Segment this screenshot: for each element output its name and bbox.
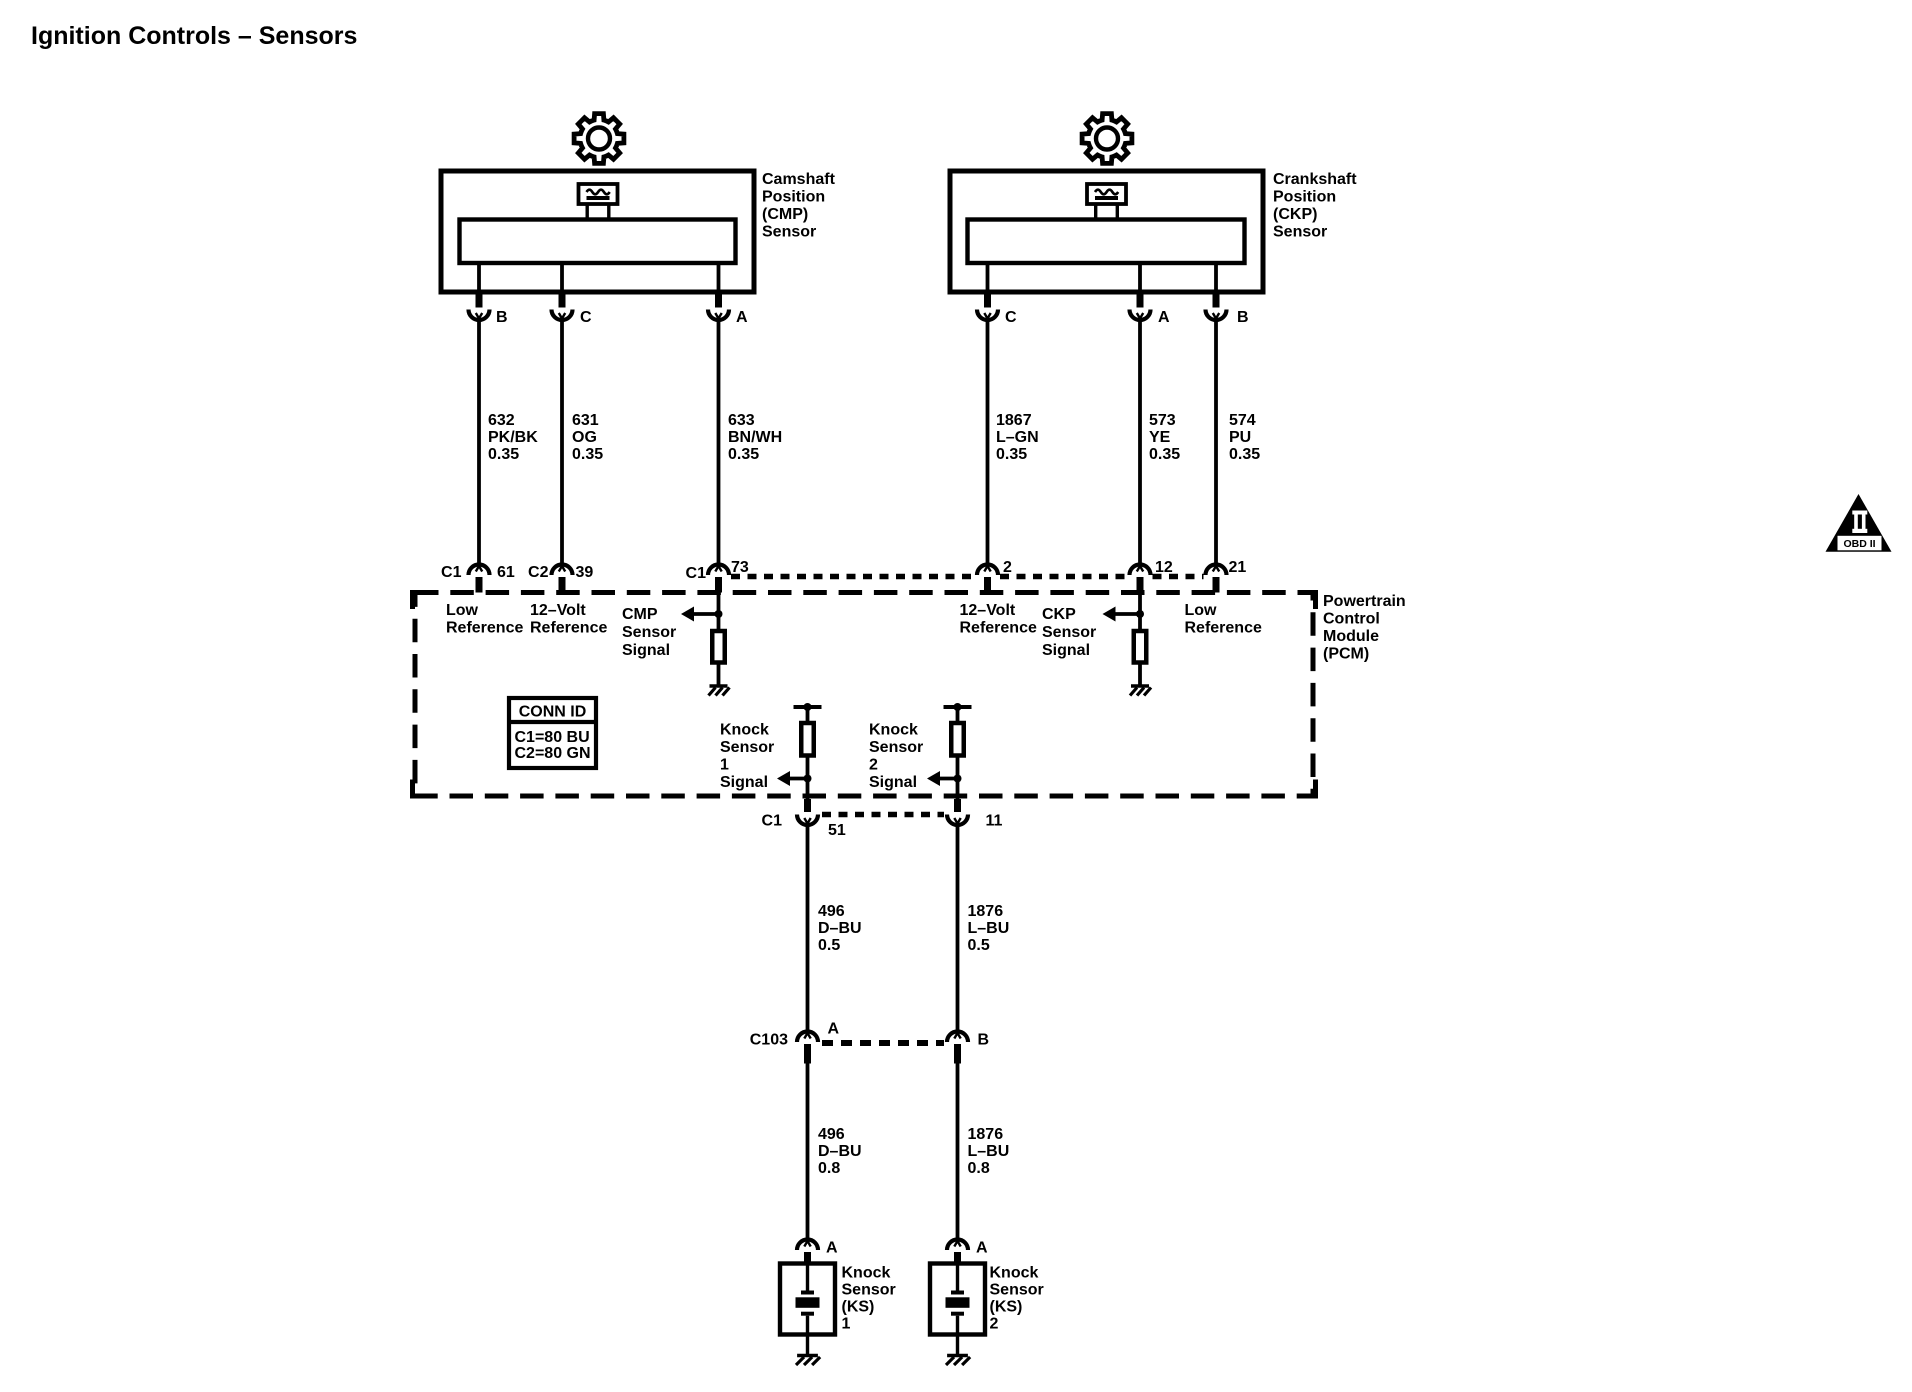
CKP pin A stub xyxy=(1137,294,1144,308)
PCM connector 12 xyxy=(1130,565,1151,593)
ground (KS1) xyxy=(796,1356,820,1366)
CMP pin A lead xyxy=(717,263,721,292)
12-Volt Reference label (right) xyxy=(960,602,1037,637)
CMP pin C lead xyxy=(560,263,564,292)
svg-text:0.35: 0.35 xyxy=(728,446,759,463)
svg-text:CMP: CMP xyxy=(622,606,658,623)
CMP sensor element symbol xyxy=(579,184,618,220)
CKP pin C label xyxy=(1005,309,1017,326)
Low Reference label (left) xyxy=(446,602,523,637)
svg-text:0.35: 0.35 xyxy=(996,446,1027,463)
wire 573 label xyxy=(1149,412,1180,463)
svg-text:(CMP): (CMP) xyxy=(762,206,808,223)
knock sensor KS2 box xyxy=(930,1264,985,1335)
svg-text:A: A xyxy=(826,1240,838,1257)
wire 574 xyxy=(1214,320,1218,565)
svg-text:Knock: Knock xyxy=(869,722,918,739)
KS1 internal wire upper xyxy=(806,707,810,723)
wire 1867 xyxy=(986,320,990,565)
svg-text:A: A xyxy=(976,1240,988,1257)
wire 631 label xyxy=(572,412,603,463)
CKP pin A lead xyxy=(1138,263,1142,292)
Knock Sensor 2 Signal label xyxy=(869,722,923,792)
wire 1876 upper label xyxy=(968,903,1010,954)
svg-text:CONN ID: CONN ID xyxy=(519,704,587,721)
svg-text:Reference: Reference xyxy=(530,620,607,637)
CMP pin C label xyxy=(580,309,592,326)
wire 574 label xyxy=(1229,412,1260,463)
KS2 signal junction dot xyxy=(954,775,962,783)
svg-text:Powertrain: Powertrain xyxy=(1323,593,1406,610)
svg-text:(KS): (KS) xyxy=(990,1299,1023,1316)
resistor knock 2 bias xyxy=(951,723,964,756)
svg-text:PK/BK: PK/BK xyxy=(488,429,538,446)
CKP pin C connector xyxy=(977,310,998,321)
CKP sensor element symbol xyxy=(1087,184,1126,220)
PCM connector C2-39 xyxy=(552,565,573,593)
PCM connector 21 xyxy=(1206,565,1227,593)
svg-text:1876: 1876 xyxy=(968,1126,1004,1143)
svg-text:1: 1 xyxy=(842,1316,851,1333)
resistor knock 1 bias xyxy=(801,723,814,756)
CMP pin B connector xyxy=(469,310,490,321)
svg-text:12–Volt: 12–Volt xyxy=(530,602,586,619)
PCM dashed border xyxy=(413,593,1316,797)
svg-text:0.35: 0.35 xyxy=(1229,446,1260,463)
svg-text:(CKP): (CKP) xyxy=(1273,206,1317,223)
CKP signal junction dot xyxy=(1136,610,1144,618)
svg-text:496: 496 xyxy=(818,903,845,920)
wire 1867 label xyxy=(996,412,1039,463)
C103 connector A xyxy=(797,1032,818,1064)
svg-text:Position: Position xyxy=(1273,189,1336,206)
svg-text:A: A xyxy=(1158,309,1170,326)
svg-text:C1: C1 xyxy=(762,813,783,830)
svg-text:A: A xyxy=(828,1021,840,1038)
svg-text:C1: C1 xyxy=(686,565,707,582)
KS1 internal wire lower xyxy=(806,756,810,803)
wire 632 label xyxy=(488,412,538,463)
svg-text:B: B xyxy=(1237,309,1249,326)
svg-text:496: 496 xyxy=(818,1126,845,1143)
ground (CKP resistor) xyxy=(1130,686,1151,696)
CMP gear icon xyxy=(574,114,624,164)
svg-text:0.35: 0.35 xyxy=(1149,446,1180,463)
svg-text:C: C xyxy=(580,309,592,326)
CMP sensor outer box xyxy=(441,171,754,292)
OBD II symbol xyxy=(1826,494,1892,552)
resistor CKP pullup xyxy=(1134,631,1147,663)
svg-text:12: 12 xyxy=(1155,559,1173,576)
PCM connector 2 label xyxy=(1003,559,1012,576)
svg-text:Knock: Knock xyxy=(990,1265,1039,1282)
CKP gear icon xyxy=(1082,114,1132,164)
wire 496 upper xyxy=(806,825,810,1032)
CMP pin A label xyxy=(736,309,748,326)
svg-text:631: 631 xyxy=(572,412,599,429)
PCM knock connector labels xyxy=(762,813,1003,840)
svg-text:39: 39 xyxy=(576,564,594,581)
svg-text:Sensor: Sensor xyxy=(1273,224,1327,241)
svg-text:0.35: 0.35 xyxy=(572,446,603,463)
svg-text:CKP: CKP xyxy=(1042,606,1076,623)
svg-text:L–GN: L–GN xyxy=(996,429,1039,446)
svg-text:OG: OG xyxy=(572,429,597,446)
KS1 pin A connector xyxy=(797,1240,818,1264)
wire 631 xyxy=(560,320,564,565)
CMP resistor ground wire xyxy=(717,663,721,685)
KS2 internal wire lower xyxy=(956,756,960,803)
svg-text:574: 574 xyxy=(1229,412,1256,429)
CKP pin A connector xyxy=(1130,310,1151,321)
CMP signal arrow xyxy=(681,607,719,622)
CONN ID text xyxy=(515,704,591,763)
KS2 label xyxy=(990,1265,1044,1333)
CMP signal junction dot xyxy=(715,610,723,618)
svg-text:Reference: Reference xyxy=(446,620,523,637)
svg-text:0.35: 0.35 xyxy=(488,446,519,463)
CMP pin C stub xyxy=(559,294,566,308)
svg-text:(PCM): (PCM) xyxy=(1323,646,1369,663)
CMP pin A connector xyxy=(708,310,729,321)
ground (CMP resistor) xyxy=(709,686,730,696)
svg-text:B: B xyxy=(496,309,508,326)
KS1 label xyxy=(842,1265,896,1333)
KS1 signal arrow xyxy=(777,771,808,786)
Low Reference label (right) xyxy=(1185,602,1262,637)
CKP label xyxy=(1273,171,1357,241)
svg-text:Sensor: Sensor xyxy=(762,224,816,241)
KS1 PCM connector cup xyxy=(797,815,818,826)
svg-text:1867: 1867 xyxy=(996,412,1032,429)
svg-text:Low: Low xyxy=(1185,602,1218,619)
PCM connector C1-73 labels xyxy=(686,559,749,582)
svg-text:Sensor: Sensor xyxy=(622,624,676,641)
svg-text:Signal: Signal xyxy=(1042,642,1090,659)
svg-text:Sensor: Sensor xyxy=(720,739,774,756)
svg-text:633: 633 xyxy=(728,412,755,429)
svg-text:632: 632 xyxy=(488,412,515,429)
svg-text:D–BU: D–BU xyxy=(818,920,862,937)
svg-text:PU: PU xyxy=(1229,429,1251,446)
CMP pin C connector xyxy=(552,310,573,321)
svg-text:Reference: Reference xyxy=(960,620,1037,637)
svg-text:Control: Control xyxy=(1323,611,1380,628)
CONN ID box xyxy=(509,698,596,768)
svg-text:Module: Module xyxy=(1323,628,1379,645)
CMP signal wire xyxy=(717,593,721,632)
KS2 piezo element xyxy=(946,1264,970,1355)
PCM connector C1-61 xyxy=(469,565,490,593)
CMP sensor inner box xyxy=(460,220,736,264)
svg-text:0.5: 0.5 xyxy=(968,937,990,954)
CKP pin B connector xyxy=(1206,310,1227,321)
CMP pin B lead xyxy=(477,263,481,292)
svg-text:2: 2 xyxy=(990,1316,999,1333)
KS1 internal top bar xyxy=(794,705,822,709)
PCM connector C2-39 labels xyxy=(528,564,593,581)
PCM connector 2 xyxy=(977,565,998,593)
svg-text:0.8: 0.8 xyxy=(818,1160,840,1177)
svg-text:51: 51 xyxy=(828,822,846,839)
wire 496 lower xyxy=(806,1064,810,1241)
svg-text:C1=80 BU: C1=80 BU xyxy=(515,729,590,746)
svg-text:1: 1 xyxy=(720,757,729,774)
svg-text:0.8: 0.8 xyxy=(968,1160,990,1177)
Knock Sensor 1 Signal label xyxy=(720,722,774,792)
svg-text:C: C xyxy=(1005,309,1017,326)
PCM connector C1-61 labels xyxy=(441,564,515,581)
CKP pin C stub xyxy=(984,294,991,308)
svg-text:L–BU: L–BU xyxy=(968,920,1010,937)
KS2 pin A label xyxy=(976,1240,988,1257)
svg-text:Signal: Signal xyxy=(869,774,917,791)
ground (KS2) xyxy=(946,1356,970,1366)
CKP sensor inner box xyxy=(968,220,1245,264)
svg-text:Signal: Signal xyxy=(622,642,670,659)
svg-text:Knock: Knock xyxy=(720,722,769,739)
resistor CMP pullup xyxy=(712,631,725,663)
CKP pin A label xyxy=(1158,309,1170,326)
CKP pin B stub xyxy=(1213,294,1220,308)
svg-text:D–BU: D–BU xyxy=(818,1143,862,1160)
KS2 internal top bar xyxy=(944,705,972,709)
KS2 internal wire upper xyxy=(956,707,960,723)
CMP pin B label xyxy=(496,309,508,326)
title text xyxy=(31,22,357,50)
svg-text:Low: Low xyxy=(446,602,479,619)
svg-text:Signal: Signal xyxy=(720,774,768,791)
PCM connector 21 label xyxy=(1229,559,1247,576)
wire 1876 lower xyxy=(956,1064,960,1241)
KS1 signal junction dot xyxy=(804,775,812,783)
KS2 PCM connector cup xyxy=(947,815,968,826)
wire 632 xyxy=(477,320,481,565)
svg-text:61: 61 xyxy=(497,564,515,581)
svg-text:Camshaft: Camshaft xyxy=(762,171,836,188)
svg-text:Reference: Reference xyxy=(1185,620,1262,637)
CMP Sensor Signal label xyxy=(622,606,676,659)
CKP pin B lead xyxy=(1214,263,1218,292)
PCM connector 12 label xyxy=(1155,559,1173,576)
CMP pin B stub xyxy=(476,294,483,308)
wire 496 lower label xyxy=(818,1126,862,1177)
wire 573 xyxy=(1138,320,1142,565)
svg-text:Sensor: Sensor xyxy=(990,1282,1044,1299)
svg-text:2: 2 xyxy=(1003,559,1012,576)
dotted bus 51-11 xyxy=(822,812,944,818)
KS2 PCM stub xyxy=(954,799,961,812)
wire 1876 upper xyxy=(956,825,960,1032)
12-Volt Reference label (left) xyxy=(530,602,607,637)
PCM label xyxy=(1323,593,1406,663)
svg-text:573: 573 xyxy=(1149,412,1176,429)
CKP Sensor Signal label xyxy=(1042,606,1096,659)
C103 dashed link xyxy=(822,1040,944,1046)
wire 496 upper label xyxy=(818,903,862,954)
svg-text:L–BU: L–BU xyxy=(968,1143,1010,1160)
svg-text:Sensor: Sensor xyxy=(842,1282,896,1299)
svg-text:YE: YE xyxy=(1149,429,1171,446)
CMP pin A stub xyxy=(715,294,722,308)
KS1 piezo element xyxy=(796,1264,820,1355)
svg-text:12–Volt: 12–Volt xyxy=(960,602,1016,619)
C103 connector B xyxy=(947,1032,968,1064)
svg-text:Sensor: Sensor xyxy=(1042,624,1096,641)
dotted bus 12-21 xyxy=(1153,574,1204,580)
svg-text:OBD II: OBD II xyxy=(1843,538,1875,550)
svg-text:C1: C1 xyxy=(441,564,462,581)
KS2 signal arrow xyxy=(927,771,958,786)
svg-text:Position: Position xyxy=(762,189,825,206)
CKP pin C lead xyxy=(986,263,990,292)
dotted bus 73-2 xyxy=(731,574,975,580)
dotted bus 2-12 xyxy=(1000,574,1128,580)
svg-text:1876: 1876 xyxy=(968,903,1004,920)
CKP signal arrow xyxy=(1103,607,1141,622)
CKP signal wire xyxy=(1138,593,1142,632)
wire 1876 lower label xyxy=(968,1126,1010,1177)
KS2 pin A connector xyxy=(947,1240,968,1264)
PCM connector C1-73 xyxy=(708,565,729,593)
CKP pin B label xyxy=(1237,309,1249,326)
CKP resistor ground wire xyxy=(1138,663,1142,685)
svg-text:0.5: 0.5 xyxy=(818,937,840,954)
svg-text:Knock: Knock xyxy=(842,1265,891,1282)
svg-text:(KS): (KS) xyxy=(842,1299,875,1316)
svg-text:2: 2 xyxy=(869,757,878,774)
svg-text:Crankshaft: Crankshaft xyxy=(1273,171,1357,188)
svg-text:11: 11 xyxy=(986,813,1003,830)
svg-text:Sensor: Sensor xyxy=(869,739,923,756)
KS1 PCM stub xyxy=(804,799,811,812)
CKP sensor outer box xyxy=(950,171,1263,292)
KS1 internal top junction dot xyxy=(804,703,812,711)
CMP label xyxy=(762,171,836,241)
svg-text:C2: C2 xyxy=(528,564,549,581)
svg-text:C2=80 GN: C2=80 GN xyxy=(515,745,591,762)
svg-text:73: 73 xyxy=(731,559,749,576)
svg-text:C103: C103 xyxy=(750,1032,788,1049)
svg-text:21: 21 xyxy=(1229,559,1247,576)
KS2 internal top junction dot xyxy=(954,703,962,711)
C103 labels xyxy=(750,1021,989,1049)
wire 633 label xyxy=(728,412,782,463)
wire 633 xyxy=(717,320,721,565)
KS1 pin A label xyxy=(826,1240,838,1257)
svg-text:B: B xyxy=(978,1032,990,1049)
knock sensor KS1 box xyxy=(780,1264,835,1335)
svg-text:Ignition Controls – Sensors: Ignition Controls – Sensors xyxy=(31,22,357,50)
svg-text:A: A xyxy=(736,309,748,326)
svg-text:BN/WH: BN/WH xyxy=(728,429,782,446)
